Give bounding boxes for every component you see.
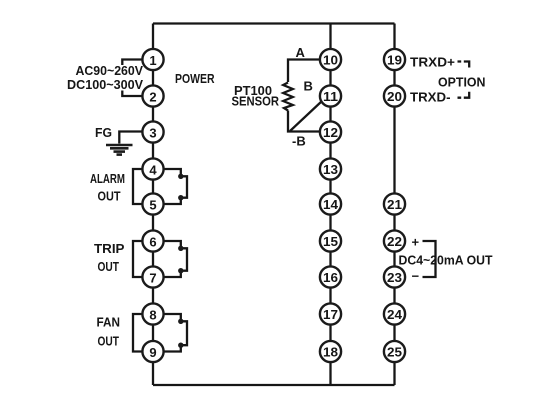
terminal 9 [142, 341, 163, 362]
svg-text:9: 9 [149, 345, 156, 360]
svg-text:6: 6 [149, 234, 156, 249]
svg-text:22: 22 [387, 234, 402, 249]
svg-text:−: − [412, 269, 420, 284]
svg-text:12: 12 [323, 125, 338, 140]
terminal 20 [384, 85, 405, 106]
svg-text:23: 23 [387, 270, 402, 285]
svg-text:OPTION: OPTION [438, 75, 486, 90]
svg-text:10: 10 [323, 53, 338, 68]
svg-text:OUT: OUT [98, 334, 120, 349]
svg-text:TRXD+: TRXD+ [410, 55, 455, 70]
svg-text:25: 25 [387, 345, 402, 360]
svg-text:16: 16 [323, 270, 338, 285]
svg-text:SENSOR: SENSOR [232, 94, 280, 109]
svg-text:1: 1 [149, 53, 156, 68]
wire trip output left bracket [133, 241, 142, 277]
svg-text:3: 3 [149, 125, 156, 140]
wire sensor B to terminal 11 (diagonal) [290, 101, 322, 131]
terminal 23 [384, 266, 405, 287]
svg-text:FG: FG [95, 125, 112, 140]
terminal 22 [384, 230, 405, 251]
wire alarm output left bracket [133, 169, 142, 204]
svg-text:15: 15 [323, 234, 338, 249]
svg-text:7: 7 [149, 270, 156, 285]
svg-text:14: 14 [323, 197, 339, 212]
svg-text:20: 20 [387, 89, 402, 104]
svg-text:8: 8 [149, 307, 156, 322]
svg-text:B: B [304, 79, 313, 94]
terminal 13 [320, 158, 341, 179]
svg-text:TRIP: TRIP [94, 241, 125, 256]
svg-text:4: 4 [149, 162, 157, 177]
svg-text:11: 11 [323, 89, 338, 104]
svg-text:OUT: OUT [98, 189, 121, 204]
wire middle terminal bus (terminals 10-18 column) [329, 24, 331, 386]
svg-text:DC100~300V: DC100~300V [67, 77, 143, 92]
terminal 7 [142, 266, 163, 287]
wire left terminal bus (terminals 1-9 column) [152, 24, 154, 386]
svg-text:ALARM: ALARM [90, 171, 125, 186]
wire terminal 3 to ground [119, 132, 142, 144]
svg-text:2: 2 [149, 89, 156, 104]
svg-text:DC4~20mA OUT: DC4~20mA OUT [399, 253, 493, 268]
svg-text:21: 21 [387, 197, 402, 212]
wire fan output left bracket [133, 314, 142, 352]
svg-text:24: 24 [387, 307, 403, 322]
terminal 19 [384, 49, 405, 70]
terminal 17 [320, 303, 341, 324]
svg-text:17: 17 [323, 307, 338, 322]
svg-text:+: + [412, 234, 420, 249]
wire right terminal bus (terminals 19-25 column) [393, 24, 395, 386]
terminal 2 [142, 85, 163, 106]
terminal 15 [320, 230, 341, 251]
wire power line N to terminal 2 [122, 91, 142, 97]
wire terminal 10 to sensor A [288, 60, 320, 83]
wire bottom bus [153, 384, 395, 386]
terminal 5 [142, 193, 163, 214]
wire power line L to terminal 1 [122, 60, 142, 66]
relay contact trip output [164, 241, 187, 277]
relay contact alarm output [164, 169, 187, 204]
terminal 1 [142, 49, 163, 70]
terminal 12 [320, 121, 341, 142]
svg-text:19: 19 [387, 53, 402, 68]
svg-text:13: 13 [323, 162, 338, 177]
svg-text:TRXD-: TRXD- [410, 90, 451, 105]
wire option dashed bracket top [458, 62, 470, 68]
terminal 4 [142, 158, 163, 179]
svg-text:5: 5 [149, 197, 156, 212]
wire current output bracket [423, 241, 436, 277]
resistor PT100 RTD element [283, 83, 293, 111]
terminal 16 [320, 266, 341, 287]
svg-text:A: A [296, 45, 306, 60]
terminal 21 [384, 193, 405, 214]
svg-text:FAN: FAN [97, 315, 121, 330]
svg-text:OUT: OUT [98, 259, 120, 274]
ground (earth) symbol [106, 145, 133, 155]
terminal 14 [320, 193, 341, 214]
wire top bus [153, 22, 395, 24]
terminal 11 [320, 85, 341, 106]
wire sensor -B to terminal 12 [288, 111, 320, 132]
svg-text:POWER: POWER [175, 71, 215, 86]
terminal 8 [142, 303, 163, 324]
terminal 18 [320, 341, 341, 362]
terminal 6 [142, 230, 163, 251]
relay contact fan output [164, 314, 187, 352]
terminal 3 [142, 121, 163, 142]
svg-text:-B: -B [292, 134, 306, 149]
wire option dashed bracket bottom [458, 92, 470, 98]
svg-text:18: 18 [323, 345, 338, 360]
terminal 25 [384, 341, 405, 362]
terminal 24 [384, 303, 405, 324]
terminal 10 [320, 49, 341, 70]
